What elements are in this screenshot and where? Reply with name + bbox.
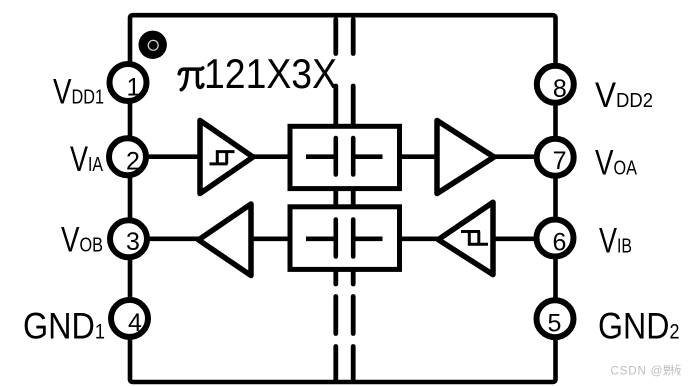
wire input buffer B to pin 6 xyxy=(492,237,556,242)
schmitt input buffer B xyxy=(438,202,493,274)
wire isolation cap A to output buffer A xyxy=(399,154,439,159)
output buffer B xyxy=(199,204,252,276)
wire pin2 to input buffer A xyxy=(130,154,199,159)
pin 5 circle xyxy=(537,300,574,337)
svg-text:VOB: VOB xyxy=(61,221,103,260)
svg-text:VIA: VIA xyxy=(70,140,103,179)
pin 1 circle xyxy=(110,64,147,102)
schmitt symbol B xyxy=(461,232,488,245)
label VIA xyxy=(70,140,103,179)
wire buffer A to isolation cap A xyxy=(252,154,291,159)
svg-text:1: 1 xyxy=(127,74,141,102)
svg-text:2: 2 xyxy=(126,148,140,176)
svg-text:3: 3 xyxy=(126,228,140,256)
capacitor A plates xyxy=(336,138,353,175)
watermark glyph ban xyxy=(671,365,681,376)
pin 8 circle xyxy=(537,66,574,103)
svg-text:GND1: GND1 xyxy=(23,305,105,347)
label VDD1 xyxy=(53,73,104,112)
watermark CSDN xyxy=(611,366,664,378)
isolation capacitor block A xyxy=(290,126,400,188)
pin 7 circle xyxy=(537,139,574,176)
capacitor A connection stubs xyxy=(306,154,383,159)
wire output buffer A to pin 7 xyxy=(493,154,556,159)
part number label xyxy=(179,50,337,97)
svg-text:8: 8 xyxy=(553,75,567,103)
label GND2 xyxy=(598,305,680,347)
pin 6 circle xyxy=(537,220,574,257)
schmitt symbol A xyxy=(210,152,235,164)
watermark glyph yi xyxy=(663,366,670,375)
capacitor B connection stubs xyxy=(306,237,383,242)
output buffer A xyxy=(437,121,494,194)
wire isolation cap B to input buffer B xyxy=(399,237,440,242)
wire pin3 to output buffer B xyxy=(130,237,200,242)
wire output buffer B to isolation cap B xyxy=(251,237,291,242)
isolation barrier right dashed line xyxy=(351,20,356,380)
capacitor B plates xyxy=(336,220,353,257)
svg-text:7: 7 xyxy=(553,147,567,175)
svg-text:CSDN @: CSDN @ xyxy=(611,366,664,378)
label VOA xyxy=(595,144,637,183)
pin 3 circle xyxy=(110,220,147,257)
pin 1 index marker dot xyxy=(139,31,167,59)
label VOB xyxy=(61,221,103,260)
svg-text:VDD2: VDD2 xyxy=(595,76,653,115)
svg-text:121X3X: 121X3X xyxy=(204,50,337,97)
svg-text:6: 6 xyxy=(553,229,567,257)
label VDD2 xyxy=(595,76,653,115)
schmitt input buffer A xyxy=(200,121,253,194)
IC package outline xyxy=(130,15,556,382)
svg-text:VOA: VOA xyxy=(595,144,637,183)
pin 4 circle xyxy=(111,300,148,337)
svg-text:4: 4 xyxy=(128,309,142,337)
isolation capacitor block B xyxy=(290,207,400,270)
svg-text:VDD1: VDD1 xyxy=(53,73,104,112)
svg-text:VIB: VIB xyxy=(599,222,632,261)
svg-text:5: 5 xyxy=(548,309,562,337)
pin 2 circle xyxy=(109,138,146,175)
label GND1 xyxy=(23,305,105,347)
svg-text:GND2: GND2 xyxy=(598,305,680,347)
isolation barrier left dashed line xyxy=(333,20,338,380)
label VIB xyxy=(599,222,632,261)
